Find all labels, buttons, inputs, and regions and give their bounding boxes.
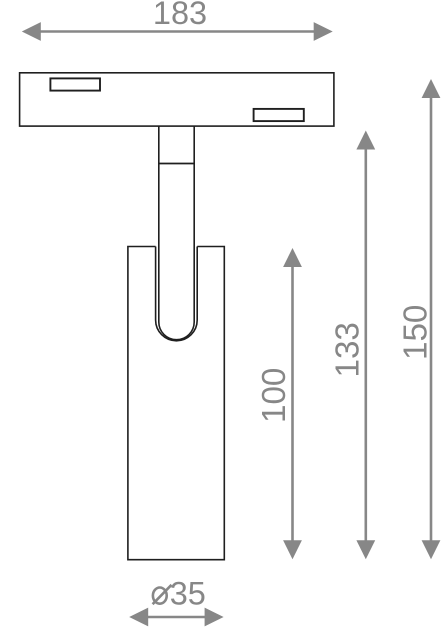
svg-text:133: 133 bbox=[330, 322, 367, 377]
dim 183 right arrowhead bbox=[314, 22, 333, 41]
track adapter body bbox=[20, 73, 334, 126]
stem bbox=[159, 126, 194, 340]
dim 150 bottom arrowhead bbox=[422, 540, 441, 559]
stem joint line bbox=[159, 163, 194, 165]
dim o35 right arrowhead bbox=[205, 608, 224, 627]
cylinder body bbox=[128, 247, 224, 560]
dim 183 left arrowhead bbox=[22, 22, 41, 41]
dim 133 line bbox=[364, 148, 367, 543]
dim 100 top arrowhead bbox=[283, 248, 302, 267]
dim 133 top arrowhead bbox=[356, 131, 375, 150]
slot bbox=[156, 247, 198, 341]
dim 133 bottom arrowhead bbox=[356, 540, 375, 559]
left window bbox=[50, 78, 100, 90]
dim 100 line bbox=[291, 265, 294, 542]
dim o35 left arrowhead bbox=[129, 608, 148, 627]
dim o35 label diameter symbol bbox=[153, 588, 167, 604]
svg-text:35: 35 bbox=[170, 575, 206, 611]
dim 183 line bbox=[39, 30, 315, 33]
svg-text:183: 183 bbox=[153, 0, 207, 31]
dim 100 bottom arrowhead bbox=[283, 540, 302, 559]
dim o35 line bbox=[146, 616, 206, 619]
dim 150 line bbox=[430, 96, 433, 542]
svg-text:150: 150 bbox=[398, 305, 435, 360]
right window bbox=[254, 109, 304, 121]
svg-text:100: 100 bbox=[256, 368, 293, 423]
dim 150 top arrowhead bbox=[422, 79, 441, 98]
